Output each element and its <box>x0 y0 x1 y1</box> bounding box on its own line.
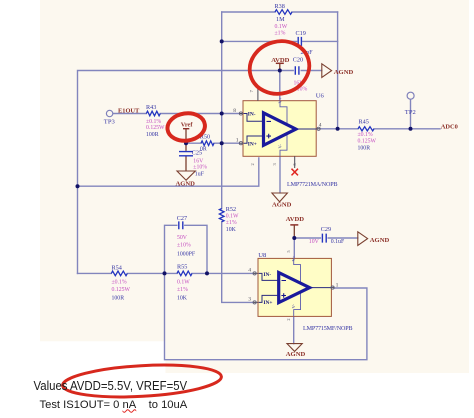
Vref bar <box>183 128 189 130</box>
junction node (186,143.2) <box>184 141 188 145</box>
svg-text:AGND: AGND <box>176 181 196 188</box>
svg-text:4: 4 <box>319 123 322 129</box>
svg-text:±0.1%: ±0.1% <box>146 119 161 125</box>
op-amp U6 triangle <box>264 113 296 145</box>
testpoint TP2 <box>407 92 414 99</box>
wire C27 parallel loop <box>165 225 208 273</box>
capacitor C25 plates <box>179 152 193 156</box>
svg-text:1: 1 <box>336 282 339 288</box>
op-amp U8 triangle <box>279 273 310 303</box>
svg-text:TP3: TP3 <box>104 118 116 125</box>
svg-text:10K: 10K <box>226 227 237 233</box>
wire right feedback vertical <box>337 12 339 129</box>
op-amp U6 minus plus <box>266 121 271 138</box>
AGND arrow right (U8 supply row) <box>358 232 368 246</box>
svg-text:V+: V+ <box>278 97 283 103</box>
svg-text:0.125W: 0.125W <box>112 287 131 293</box>
resistor R50 body <box>201 141 214 146</box>
svg-text:IN+: IN+ <box>263 300 272 306</box>
junction node (207,273.4) <box>205 271 209 275</box>
op-amp U8 minus plus <box>281 281 286 298</box>
svg-text:C27: C27 <box>177 215 187 222</box>
wire Vref to U6 IN+ <box>186 142 239 144</box>
AVDD power lead U6 <box>279 63 281 70</box>
op-amp U8 inner input lines <box>259 273 332 302</box>
svg-text:1: 1 <box>236 137 239 143</box>
bottom annotation text line 1 <box>34 380 188 394</box>
junction node (337.6,128.8) <box>336 127 340 131</box>
svg-text:LMP7721MA/NOPB: LMP7721MA/NOPB <box>287 182 337 188</box>
Vref power lead and C25 leads <box>185 129 187 171</box>
svg-text:E1OUT: E1OUT <box>118 108 140 115</box>
svg-text:0.1uF: 0.1uF <box>331 239 345 245</box>
op-amp U6 pin circles <box>239 112 320 145</box>
resistor R38 body <box>275 10 292 15</box>
op-amp U8 pin circles <box>253 272 334 304</box>
wire bottom divider row R54 R55 <box>78 272 253 274</box>
svg-text:±1%: ±1% <box>275 30 286 36</box>
resistor R55 body <box>177 271 192 276</box>
svg-text:C25: C25 <box>192 150 202 157</box>
junction node (221.7,143.2) <box>220 141 224 145</box>
svg-text:C20: C20 <box>293 57 303 64</box>
svg-text:AGND: AGND <box>334 69 354 76</box>
wire C19 feedback row <box>222 40 338 42</box>
svg-text:0.125W: 0.125W <box>358 139 377 145</box>
svg-text:U8: U8 <box>258 252 267 259</box>
wire feedback left vertical (guard) <box>222 12 253 302</box>
AVDD power lead U8 <box>293 225 295 238</box>
svg-text:LMP7715MF/NOPB: LMP7715MF/NOPB <box>303 326 352 332</box>
red circle around Vref <box>166 111 207 143</box>
svg-text:100R: 100R <box>358 146 371 152</box>
op-amp U6 inner input lines <box>244 114 317 144</box>
red ellipse around bottom values text <box>62 361 222 400</box>
capacitor C20 plates <box>295 66 299 75</box>
wire AVDD row to C20 and AGND <box>279 70 321 72</box>
bottom annotation text line 2 <box>40 399 188 411</box>
no-ERC red X on U6 pin 5 <box>292 169 299 176</box>
AGND arrow right (U6 supply row) <box>322 64 332 78</box>
AGND triangle below U8 <box>287 344 302 352</box>
svg-text:C29: C29 <box>321 226 331 233</box>
svg-text:R52: R52 <box>226 206 236 213</box>
op-amp U8 body <box>258 258 331 316</box>
svg-text:1000PF: 1000PF <box>177 251 196 257</box>
svg-text:IN-: IN- <box>248 112 256 118</box>
AGND triangle below U6 <box>272 193 288 202</box>
AVDD bar U8 <box>290 224 298 226</box>
svg-text:1uF: 1uF <box>195 172 205 178</box>
op-amp U8 pin stubs <box>253 273 334 302</box>
svg-text:100R: 100R <box>146 132 159 138</box>
wire U6 pin2 guard row <box>78 158 259 186</box>
svg-text:V+: V+ <box>291 255 296 261</box>
testpoint TP3 <box>106 110 112 116</box>
junction node (164.5,273.4) <box>163 271 167 275</box>
red circle around AVDD U6 <box>244 35 315 101</box>
svg-text:R45: R45 <box>359 119 369 126</box>
svg-text:±0.1%: ±0.1% <box>112 279 127 285</box>
junction node (77.5,186.2) <box>76 184 80 188</box>
capacitor C19 plates <box>298 37 301 46</box>
op-amp U6 V+ V- brackets <box>280 101 287 157</box>
wire R38 feedback top row <box>222 11 338 13</box>
svg-text:TP2: TP2 <box>405 109 416 116</box>
svg-text:ADC0: ADC0 <box>441 123 458 130</box>
AVDD bar U6 <box>276 62 284 64</box>
op-amp U6 body <box>243 101 316 157</box>
wire U8 V- to AGND <box>293 317 295 344</box>
resistor R54 body <box>111 271 127 276</box>
op-amp U8 V+ V- brackets <box>294 258 301 316</box>
wire TP2 drop <box>410 99 412 129</box>
svg-text:IN-: IN- <box>263 272 271 278</box>
svg-text:V-: V- <box>291 304 296 309</box>
svg-text:AGND: AGND <box>272 202 292 209</box>
wire AVDD U8 pin stub <box>293 238 295 258</box>
junction node (279.8,70.5) <box>278 69 282 73</box>
op-amp U6 pin stubs <box>239 87 320 168</box>
svg-text:IN+: IN+ <box>248 141 257 147</box>
wire U8 feedback loop <box>165 273 367 359</box>
svg-text:0.1W: 0.1W <box>275 24 288 30</box>
wire AVDD horizontal to left rail <box>78 71 280 274</box>
svg-text:2: 2 <box>286 318 291 320</box>
svg-text:8: 8 <box>233 108 236 114</box>
svg-text:0.1W: 0.1W <box>226 214 239 220</box>
wire AVDD U8 row to C29 and AGND <box>294 237 358 239</box>
junction node (294.3,238) <box>292 236 296 240</box>
svg-text:U6: U6 <box>316 93 325 100</box>
svg-text:C19: C19 <box>296 30 306 37</box>
svg-text:4: 4 <box>248 267 251 273</box>
svg-text:0.1W: 0.1W <box>177 279 190 285</box>
resistor R43 body <box>146 111 160 116</box>
svg-text:R43: R43 <box>146 104 156 111</box>
capacitor C27 plates <box>179 221 183 229</box>
wire AVDD U6 pin stub <box>279 71 281 101</box>
svg-text:AGND: AGND <box>370 237 390 244</box>
junction node (410.5,128.8) <box>409 127 413 131</box>
svg-text:V-: V- <box>278 144 283 149</box>
svg-text:50V: 50V <box>177 235 188 241</box>
capacitor C29 plates <box>322 234 326 243</box>
svg-text:AVDD: AVDD <box>271 57 289 64</box>
AGND triangle below C25 <box>177 171 195 180</box>
svg-text:R54: R54 <box>112 264 122 271</box>
svg-text:±1%: ±1% <box>226 220 237 226</box>
svg-text:10V: 10V <box>309 239 320 245</box>
svg-text:0.125W: 0.125W <box>146 125 165 131</box>
svg-text:±0.1%: ±0.1% <box>358 132 373 138</box>
svg-text:Vref: Vref <box>181 122 194 129</box>
svg-text:±1%: ±1% <box>177 287 188 293</box>
svg-text:2: 2 <box>250 163 255 165</box>
svg-text:AVDD: AVDD <box>286 216 304 223</box>
svg-text:R55: R55 <box>177 263 187 270</box>
svg-text:±10%: ±10% <box>193 165 207 171</box>
svg-text:R38: R38 <box>275 3 285 10</box>
wire U6 output to ADC0 <box>320 128 440 130</box>
svg-text:±10%: ±10% <box>177 242 191 248</box>
wire U6 V- to AGND <box>279 156 281 193</box>
resistor R45 body <box>358 127 374 131</box>
svg-text:3: 3 <box>248 296 251 302</box>
svg-text:10K: 10K <box>177 295 188 301</box>
junction node (221.7,41.4) <box>220 39 224 43</box>
wire TP3 E1OUT to U6 IN- <box>113 113 239 115</box>
svg-text:AGND: AGND <box>286 351 306 358</box>
junction node (221.7,113.5) <box>220 112 224 116</box>
resistor R52 body <box>219 209 224 222</box>
svg-text:100R: 100R <box>112 295 125 301</box>
svg-text:1M: 1M <box>276 16 285 23</box>
